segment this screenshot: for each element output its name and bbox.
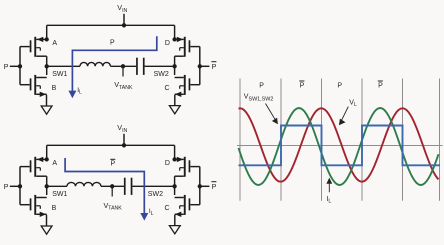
svg-text:IL: IL [77, 87, 82, 96]
transistor A (top-left PMOS) [34, 37, 36, 57]
wire rail-to-D [174, 25, 176, 39]
ground right [169, 106, 180, 114]
svg-text:C: C [165, 85, 170, 92]
node SW2 [172, 184, 176, 188]
wire A-source to SW1 [46, 56, 48, 66]
transistor C (bottom-right NMOS) [184, 75, 186, 95]
wire inductor to VTANK node [110, 65, 136, 67]
svg-text:P: P [110, 39, 115, 46]
node VIN [123, 14, 125, 25]
waveform VSW1,SW2 blue square [239, 126, 441, 166]
capacitor C tank [136, 58, 138, 75]
svg-text:P: P [378, 82, 383, 89]
wire rail-to-D [174, 145, 176, 159]
transistor D (top-right PMOS) [184, 157, 186, 177]
svg-text:C: C [165, 205, 170, 212]
wire inductor to VTANK node [101, 185, 124, 187]
svg-text:IL: IL [326, 196, 331, 205]
svg-text:D: D [165, 40, 170, 47]
node VTANK [110, 184, 114, 188]
transistor B (bottom-left NMOS) [34, 75, 36, 95]
wire SW1 to inductor [47, 185, 67, 187]
wire rail-to-A [46, 145, 48, 159]
svg-text:SW2: SW2 [154, 71, 169, 78]
wire SW1 to inductor [47, 65, 80, 67]
wire current path P-bar (blue) [65, 158, 144, 214]
transistor A (top-left PMOS) [34, 157, 36, 177]
node P input left [19, 47, 21, 85]
svg-text:VSW1,SW2: VSW1,SW2 [244, 94, 274, 103]
waveform IL green sine [239, 108, 439, 185]
svg-text:D: D [165, 160, 170, 167]
ground right [169, 226, 180, 234]
svg-text:SW1: SW1 [52, 71, 67, 78]
wire SW1 to B-drain [46, 186, 48, 195]
inductor L [80, 62, 110, 66]
svg-text:P: P [337, 82, 342, 89]
svg-text:P: P [212, 184, 217, 191]
svg-text:P: P [111, 161, 116, 168]
wire C-source to ground [174, 95, 176, 106]
node P input left [19, 167, 21, 205]
wire rail-to-A [46, 25, 48, 39]
svg-text:P: P [300, 82, 305, 89]
svg-text:B: B [52, 205, 57, 212]
transistor C (bottom-right NMOS) [184, 195, 186, 215]
svg-text:VTANK: VTANK [104, 201, 123, 212]
wire capacitor to SW2 [145, 65, 175, 67]
wire current path P (blue) [72, 36, 156, 92]
ground left [41, 106, 52, 114]
wire A-source to SW1 [46, 176, 48, 186]
waveform chart gridlines [239, 79, 241, 201]
svg-text:VTANK: VTANK [114, 80, 133, 91]
waveform VL red sine [239, 108, 439, 182]
VIN supply rail [47, 24, 175, 26]
transistor D (top-right PMOS) [184, 37, 186, 57]
wire B-source to ground [46, 215, 48, 226]
svg-text:SW2: SW2 [148, 191, 163, 198]
wire B-source to ground [46, 95, 48, 106]
svg-text:P: P [4, 64, 9, 71]
ground left [41, 226, 52, 234]
wire C-source to ground [174, 215, 176, 226]
node SW1 [45, 184, 49, 188]
wire SW1 to B-drain [46, 66, 48, 75]
svg-text:A: A [52, 160, 57, 167]
wire SW2 to C-drain [174, 186, 176, 195]
node SW2 [172, 64, 176, 68]
VIN supply rail [47, 144, 175, 146]
svg-text:B: B [52, 85, 57, 92]
svg-text:P: P [259, 82, 264, 89]
svg-text:IL: IL [149, 208, 154, 217]
wire D-source to SW2 [174, 176, 176, 186]
inductor L [67, 182, 101, 186]
node VTANK [121, 64, 125, 68]
svg-text:VIN: VIN [117, 123, 127, 134]
svg-text:P: P [4, 184, 9, 191]
wire capacitor to SW2 [132, 185, 174, 187]
svg-text:VL: VL [349, 99, 357, 108]
wire SW2 to C-drain [174, 66, 176, 75]
svg-text:P: P [212, 64, 217, 71]
node P-bar input right [199, 47, 201, 85]
wire D-source to SW2 [174, 56, 176, 66]
node SW1 [45, 64, 49, 68]
node P-bar input right [199, 167, 201, 205]
svg-text:SW1: SW1 [52, 191, 67, 198]
transistor B (bottom-left NMOS) [34, 195, 36, 215]
svg-text:A: A [52, 40, 57, 47]
svg-text:VIN: VIN [117, 3, 127, 14]
node VIN [123, 134, 125, 146]
capacitor C tank [124, 178, 126, 195]
chart horizontal axis [237, 145, 443, 147]
